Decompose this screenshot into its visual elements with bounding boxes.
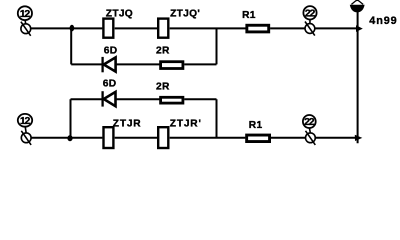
svg-text:ZTJR': ZTJR' <box>170 118 202 129</box>
svg-text:6D: 6D <box>103 78 117 89</box>
svg-text:12: 12 <box>20 115 31 127</box>
svg-text:ZTJQ: ZTJQ <box>106 9 133 20</box>
svg-text:4n99: 4n99 <box>369 15 397 27</box>
svg-text:12: 12 <box>20 8 31 20</box>
svg-text:R1: R1 <box>249 120 263 131</box>
svg-text:6D: 6D <box>104 46 118 57</box>
svg-text:2R: 2R <box>156 82 170 93</box>
svg-text:ZTJQ': ZTJQ' <box>170 9 200 20</box>
svg-text:2R: 2R <box>156 46 170 57</box>
svg-text:ZTJR: ZTJR <box>113 118 142 129</box>
svg-text:22: 22 <box>305 7 316 19</box>
svg-text:22: 22 <box>304 116 315 128</box>
svg-text:R1: R1 <box>242 10 256 21</box>
